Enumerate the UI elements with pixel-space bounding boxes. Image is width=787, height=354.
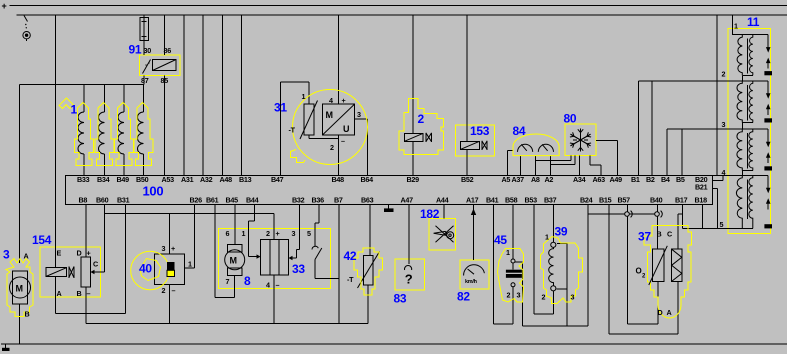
svg-text:11: 11 <box>747 15 760 29</box>
svg-text:4: 4 <box>329 96 333 105</box>
svg-text:3: 3 <box>292 229 296 238</box>
svg-text:A: A <box>24 252 29 261</box>
svg-text:-T: -T <box>289 126 296 135</box>
svg-text:182: 182 <box>420 207 440 221</box>
svg-text:B58: B58 <box>505 196 518 205</box>
svg-text:B7: B7 <box>334 196 343 205</box>
svg-text:+: + <box>2 1 7 11</box>
svg-text:A2: A2 <box>545 175 554 184</box>
svg-text:A53: A53 <box>162 175 175 184</box>
svg-text:–: – <box>276 281 280 290</box>
svg-text:2: 2 <box>507 291 511 300</box>
svg-text:1: 1 <box>734 22 738 31</box>
svg-text:km/h: km/h <box>465 279 478 285</box>
svg-text:1: 1 <box>506 248 510 257</box>
svg-text:A32: A32 <box>200 175 213 184</box>
svg-text:3: 3 <box>571 293 575 302</box>
svg-text:U: U <box>343 124 349 134</box>
svg-text:2: 2 <box>162 286 166 295</box>
svg-text:2: 2 <box>418 112 425 126</box>
svg-text:B: B <box>77 289 82 298</box>
svg-text:M: M <box>326 110 333 120</box>
svg-text:2: 2 <box>542 293 546 302</box>
svg-text:40: 40 <box>139 262 152 276</box>
svg-text:3: 3 <box>357 110 361 119</box>
svg-text:B41: B41 <box>486 196 499 205</box>
svg-text:A34: A34 <box>573 175 586 184</box>
svg-text:B53: B53 <box>525 196 538 205</box>
svg-text:E: E <box>57 249 62 258</box>
svg-text:1: 1 <box>188 260 192 269</box>
svg-text:39: 39 <box>555 225 568 239</box>
svg-text:B: B <box>657 230 662 239</box>
svg-text:C: C <box>93 260 98 269</box>
svg-text:B26: B26 <box>190 196 203 205</box>
svg-text:A8: A8 <box>531 175 540 184</box>
svg-text:42: 42 <box>344 249 357 263</box>
svg-text:B32: B32 <box>292 196 305 205</box>
svg-text:B64: B64 <box>361 175 374 184</box>
svg-text:B49: B49 <box>117 175 130 184</box>
svg-text:B8: B8 <box>79 196 88 205</box>
svg-text:B34: B34 <box>97 175 110 184</box>
svg-text:A: A <box>667 308 672 317</box>
svg-text:A: A <box>57 289 62 298</box>
svg-text:B57: B57 <box>618 196 631 205</box>
svg-text:1: 1 <box>545 233 549 242</box>
svg-text:33: 33 <box>292 262 305 276</box>
svg-text:B45: B45 <box>226 196 239 205</box>
svg-text:B47: B47 <box>271 175 284 184</box>
svg-text:B37: B37 <box>544 196 557 205</box>
svg-text:B44: B44 <box>246 196 259 205</box>
svg-text:4: 4 <box>722 168 726 177</box>
svg-text:45: 45 <box>494 233 507 247</box>
svg-text:3: 3 <box>3 248 10 262</box>
svg-text:5: 5 <box>720 220 724 229</box>
svg-text:M: M <box>16 284 23 294</box>
svg-text:?: ? <box>405 272 413 287</box>
svg-text:A63: A63 <box>593 175 606 184</box>
svg-text:B1: B1 <box>631 175 640 184</box>
svg-text:80: 80 <box>564 112 577 126</box>
svg-text:6: 6 <box>226 229 230 238</box>
svg-text:B40: B40 <box>650 196 663 205</box>
svg-text:+: + <box>171 244 175 253</box>
svg-text:7: 7 <box>226 277 230 286</box>
svg-text:3: 3 <box>722 120 726 129</box>
svg-text:-T: -T <box>347 275 354 284</box>
svg-text:3: 3 <box>162 244 166 253</box>
svg-text:2: 2 <box>330 143 334 152</box>
svg-text:4: 4 <box>266 281 270 290</box>
svg-text:83: 83 <box>394 292 407 306</box>
svg-text:A49: A49 <box>610 175 623 184</box>
svg-text:B36: B36 <box>312 196 325 205</box>
svg-text:A37: A37 <box>512 175 525 184</box>
svg-text:A48: A48 <box>220 175 233 184</box>
svg-text:87: 87 <box>141 76 149 85</box>
svg-text:154: 154 <box>32 233 52 247</box>
svg-text:1: 1 <box>302 92 306 101</box>
svg-text:–: – <box>172 286 176 295</box>
svg-text:B13: B13 <box>239 175 252 184</box>
svg-text:37: 37 <box>638 230 651 244</box>
svg-text:100: 100 <box>143 184 164 199</box>
svg-text:2: 2 <box>266 229 270 238</box>
svg-text:B33: B33 <box>77 175 90 184</box>
svg-text:82: 82 <box>457 290 470 304</box>
svg-text:+: + <box>87 249 91 258</box>
svg-text:A47: A47 <box>401 196 414 205</box>
svg-text:–: – <box>87 289 91 298</box>
svg-text:85: 85 <box>161 76 169 85</box>
svg-text:B50: B50 <box>136 175 149 184</box>
svg-text:31: 31 <box>274 101 287 115</box>
svg-text:8: 8 <box>244 274 251 288</box>
svg-text:B: B <box>25 310 30 319</box>
svg-text:B31: B31 <box>117 196 130 205</box>
svg-text:+: + <box>342 96 346 105</box>
svg-text:30: 30 <box>144 46 152 55</box>
svg-text:D: D <box>658 308 663 317</box>
svg-text:+: + <box>276 229 280 238</box>
svg-text:B48: B48 <box>332 175 345 184</box>
svg-text:153: 153 <box>470 124 490 138</box>
svg-text:A44: A44 <box>436 196 449 205</box>
svg-text:B60: B60 <box>96 196 109 205</box>
svg-text:O: O <box>636 267 642 276</box>
svg-text:D: D <box>77 249 82 258</box>
svg-text:B29: B29 <box>407 175 420 184</box>
svg-text:B63: B63 <box>361 196 374 205</box>
svg-text:A5: A5 <box>502 175 511 184</box>
svg-text:–: – <box>341 137 345 146</box>
svg-text:C: C <box>667 230 672 239</box>
svg-text:B5: B5 <box>676 175 685 184</box>
svg-text:A31: A31 <box>181 175 194 184</box>
svg-text:A17: A17 <box>466 196 479 205</box>
svg-text:M: M <box>230 256 237 266</box>
svg-text:B18: B18 <box>695 196 708 205</box>
svg-text:B21: B21 <box>695 183 708 192</box>
svg-text:1: 1 <box>242 229 246 238</box>
svg-text:3: 3 <box>517 291 521 300</box>
svg-text:B15: B15 <box>599 196 612 205</box>
svg-text:5: 5 <box>307 229 311 238</box>
svg-text:1: 1 <box>71 103 78 117</box>
svg-text:B24: B24 <box>580 196 593 205</box>
svg-text:84: 84 <box>513 124 526 138</box>
svg-text:B4: B4 <box>661 175 670 184</box>
svg-text:B61: B61 <box>206 196 219 205</box>
svg-text:86: 86 <box>164 46 172 55</box>
svg-text:2: 2 <box>722 70 726 79</box>
svg-text:91: 91 <box>129 43 142 57</box>
svg-text:B52: B52 <box>461 175 474 184</box>
svg-text:B2: B2 <box>646 175 655 184</box>
svg-text:B17: B17 <box>675 196 688 205</box>
